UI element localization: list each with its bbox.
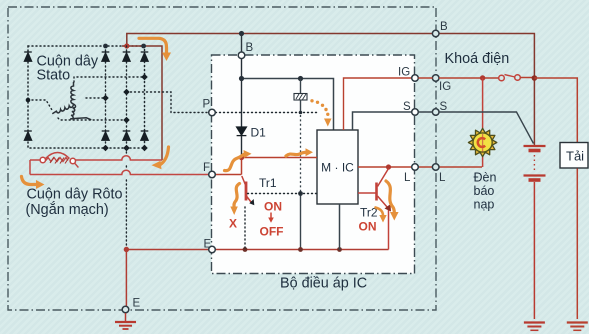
bus junction diamonds xyxy=(102,145,148,152)
diode xyxy=(102,131,110,140)
stator interior dotted column xyxy=(126,46,128,148)
svg-text:(Ngắn mạch): (Ngắn mạch) xyxy=(26,201,109,218)
node F xyxy=(209,171,216,178)
arrowhead F snake xyxy=(244,150,252,158)
arrow Tr1 xyxy=(234,184,240,208)
coil left xyxy=(52,104,73,114)
node S xyxy=(412,109,419,116)
phase tap diamond xyxy=(123,89,130,96)
coil right xyxy=(70,104,91,120)
rotor winding circuit xyxy=(30,153,209,175)
arrow Tr2 big xyxy=(386,181,394,213)
dotted orange arrow resistor to M IC xyxy=(310,99,331,126)
svg-text:L: L xyxy=(439,172,446,184)
E junction dot xyxy=(124,247,129,252)
Tr1 base dotted xyxy=(248,193,318,195)
battery dotted middle xyxy=(533,155,535,171)
arrowhead Tr2 small xyxy=(379,215,386,223)
S wire inside regulator xyxy=(353,112,415,130)
rotor lower wire with hop xyxy=(30,170,209,174)
svg-text:Cuộn dây Rôto: Cuộn dây Rôto xyxy=(27,187,123,203)
D1 branch from B xyxy=(241,59,243,128)
svg-text:B: B xyxy=(440,21,448,33)
svg-text:ON: ON xyxy=(264,200,282,214)
svg-text:L: L xyxy=(404,172,411,184)
node circles on outer border xyxy=(122,30,439,313)
F junction wiring xyxy=(242,157,318,159)
alternator outer dashed border xyxy=(8,7,436,310)
node IG xyxy=(412,75,419,82)
E wire inside regulator xyxy=(216,249,389,251)
svg-text:B: B xyxy=(246,42,254,54)
brush tick xyxy=(75,163,79,167)
svg-text:Đèn: Đèn xyxy=(474,171,497,185)
Tr1 bar xyxy=(245,182,248,201)
node IG outer xyxy=(432,75,439,82)
phase tap diamonds xyxy=(26,74,148,124)
Tr2 emitter drop xyxy=(388,208,390,250)
L wire xyxy=(358,166,482,168)
svg-text:OFF: OFF xyxy=(260,225,284,239)
junction diamond xyxy=(141,145,148,152)
arrow rotor corner left xyxy=(160,147,169,165)
coil up xyxy=(71,82,74,104)
junction dot red xyxy=(124,43,129,48)
resistor divider xyxy=(300,79,302,94)
diode xyxy=(141,52,149,61)
Tr2 base xyxy=(358,192,376,194)
Tr1 emitter xyxy=(247,197,251,203)
svg-text:P: P xyxy=(203,99,211,111)
neutral link xyxy=(28,100,52,110)
rectifier diode bottom row xyxy=(24,131,148,140)
node S outer xyxy=(432,109,439,116)
svg-text:báo: báo xyxy=(474,184,495,198)
E wire horizontal xyxy=(126,249,208,251)
load box Tải xyxy=(560,143,588,169)
rotor upper wire continues with hop xyxy=(76,156,163,160)
ground E xyxy=(115,313,136,329)
arrow F snake xyxy=(225,154,245,170)
ground load xyxy=(567,323,588,331)
svg-text:Khoá điện: Khoá điện xyxy=(445,51,510,67)
node B xyxy=(238,52,245,59)
lamp drop wire xyxy=(482,78,484,167)
switch blade xyxy=(505,75,516,77)
junction dots on divider xyxy=(299,111,303,115)
wire B stub to regulator xyxy=(241,34,243,53)
phase tap diamond xyxy=(141,74,148,81)
arrowhead into M IC xyxy=(306,148,314,156)
M IC block xyxy=(317,130,358,204)
svg-text:F: F xyxy=(203,162,210,174)
stator star winding xyxy=(52,82,91,120)
Tr2 emitter arrowhead xyxy=(385,204,392,212)
svg-text:E: E xyxy=(133,298,141,310)
neutral junction dot xyxy=(26,98,31,103)
P dotted sense line inside xyxy=(216,112,318,114)
phase link xyxy=(74,77,145,82)
battery plate long xyxy=(524,145,546,147)
arrowhead rotor left xyxy=(36,180,45,189)
junction dot xyxy=(239,76,244,81)
svg-text:M · IC: M · IC xyxy=(321,161,354,175)
svg-text:D1: D1 xyxy=(251,126,267,140)
orange flow arrows xyxy=(22,38,395,215)
charge lamp xyxy=(468,128,496,156)
node B outer xyxy=(432,30,439,37)
svg-text:Bộ điều áp IC: Bộ điều áp IC xyxy=(280,276,367,292)
rotor coil xyxy=(46,158,68,162)
svg-text:X: X xyxy=(229,217,237,231)
battery plate short xyxy=(529,178,541,182)
battery xyxy=(524,146,546,330)
battery to ground xyxy=(533,182,535,319)
rectifier diode top row xyxy=(24,52,148,61)
short circuit arc xyxy=(46,153,70,159)
internal supply line to M IC xyxy=(242,79,334,131)
node E xyxy=(209,246,216,253)
Tr2 collector xyxy=(378,169,389,187)
Tr2 emitter xyxy=(378,196,388,208)
resistor body xyxy=(294,94,307,101)
diode D1 xyxy=(237,127,247,136)
arrowhead Tr1 xyxy=(230,207,238,216)
IG wire inside regulator xyxy=(344,78,415,130)
node circles on regulator box xyxy=(209,52,419,253)
node L outer xyxy=(432,164,439,171)
node letter labels xyxy=(133,21,452,310)
phase tap diamond xyxy=(102,95,109,102)
svg-text:IG: IG xyxy=(439,81,451,93)
wire B+ top line to battery xyxy=(127,34,535,147)
stator interior dotted column xyxy=(105,46,107,148)
phase tap diamond xyxy=(123,117,130,124)
arrow rotor left xyxy=(22,177,37,185)
junction dot lamp xyxy=(480,75,485,80)
Tr1 emitter dotted to E xyxy=(244,207,246,250)
ignition switch contacts xyxy=(499,75,505,81)
diode xyxy=(123,131,131,140)
svg-text:IG: IG xyxy=(398,67,410,79)
svg-text:Stato: Stato xyxy=(37,68,71,84)
node P xyxy=(209,109,216,116)
arrowhead top hook xyxy=(162,53,171,62)
Tr1 emitter arrowhead xyxy=(249,199,254,205)
junction diamond xyxy=(123,145,130,152)
divider line down xyxy=(300,100,302,113)
svg-text:Tải: Tải xyxy=(566,149,584,164)
battery plate short xyxy=(529,149,541,153)
brush ring xyxy=(40,157,45,162)
svg-text:S: S xyxy=(440,101,448,113)
rotor coil hatch xyxy=(50,157,69,164)
wire D1 to F junction xyxy=(241,136,243,158)
transistor Tr1 xyxy=(242,176,251,202)
svg-text:Tr1: Tr1 xyxy=(259,176,277,190)
arrow Tr2 small xyxy=(376,208,384,216)
node E outer xyxy=(122,306,129,313)
IG wire to switch xyxy=(418,77,499,79)
junction dot xyxy=(103,44,108,49)
diode xyxy=(123,52,131,61)
E line red xyxy=(126,250,388,307)
transistor Tr2 xyxy=(358,169,389,250)
junction diamond xyxy=(102,145,109,152)
load ground wire xyxy=(576,169,578,320)
ground drop from rectifier dotted xyxy=(125,148,127,248)
rotor left side xyxy=(29,160,31,175)
node L xyxy=(412,164,419,171)
Tr1 collector xyxy=(242,176,246,185)
svg-text:nạp: nạp xyxy=(474,198,495,212)
rotor upper wire xyxy=(30,159,40,161)
svg-text:S: S xyxy=(403,101,411,113)
svg-text:E: E xyxy=(204,239,212,251)
regulator box (Bộ điều áp IC) xyxy=(212,55,415,274)
load feed wire xyxy=(534,78,577,142)
diode xyxy=(141,131,149,140)
arrowhead rotor corner xyxy=(152,161,162,170)
S sense wire to battery xyxy=(418,112,533,144)
stator phase dotted links xyxy=(28,77,209,120)
diode xyxy=(24,52,32,61)
junction dot xyxy=(298,76,303,81)
arrow top hook down xyxy=(139,38,167,52)
arrowhead Tr2 big xyxy=(390,212,399,221)
phase link xyxy=(58,118,127,120)
M IC ground leg xyxy=(339,204,341,250)
diode xyxy=(24,131,32,140)
stator dotted box xyxy=(28,46,145,148)
node junction on B line xyxy=(239,31,244,36)
ground battery xyxy=(524,321,545,323)
wire rectifier bus to rotor feed xyxy=(122,46,162,160)
Tr2 bar xyxy=(375,183,378,201)
svg-text:ON: ON xyxy=(359,220,377,234)
diode xyxy=(102,52,110,61)
E wire down to ground xyxy=(125,250,127,307)
arrow into M IC xyxy=(286,152,306,156)
phase link xyxy=(86,97,106,99)
P sense link xyxy=(127,92,209,113)
switch to battery node xyxy=(520,77,534,79)
junction dot xyxy=(141,44,146,49)
brush ring xyxy=(70,158,75,163)
battery plate long xyxy=(524,174,546,176)
